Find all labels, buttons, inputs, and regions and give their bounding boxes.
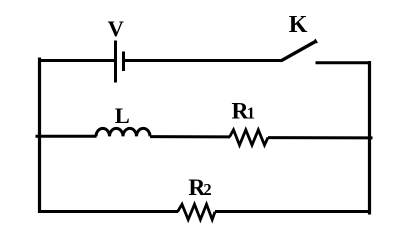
wire middle right (R1 to right rail) [268,136,373,139]
svg-text:2: 2 [203,180,211,199]
inductor L coil [96,128,150,136]
wire right vertical [368,61,371,215]
battery V short plate [122,52,125,72]
resistor R1 zigzag [230,130,269,145]
battery V long plate [114,41,117,83]
wire switch right contact [316,61,372,64]
wire bottom right [215,210,371,213]
wire top right (battery to switch) [125,59,283,62]
svg-text:V: V [108,16,124,41]
resistor R2 zigzag [178,204,216,219]
svg-text:L: L [115,103,130,128]
svg-text:K: K [289,12,308,38]
wire middle left (left rail to inductor) [36,135,97,138]
wire left vertical [38,58,41,214]
switch K lever tip [311,39,318,45]
switch K lever [281,42,315,61]
wire middle between L and R1 [150,135,230,138]
svg-text:1: 1 [247,104,255,123]
wire top left (left corner to battery) [38,59,115,62]
wire bottom left [38,210,178,213]
